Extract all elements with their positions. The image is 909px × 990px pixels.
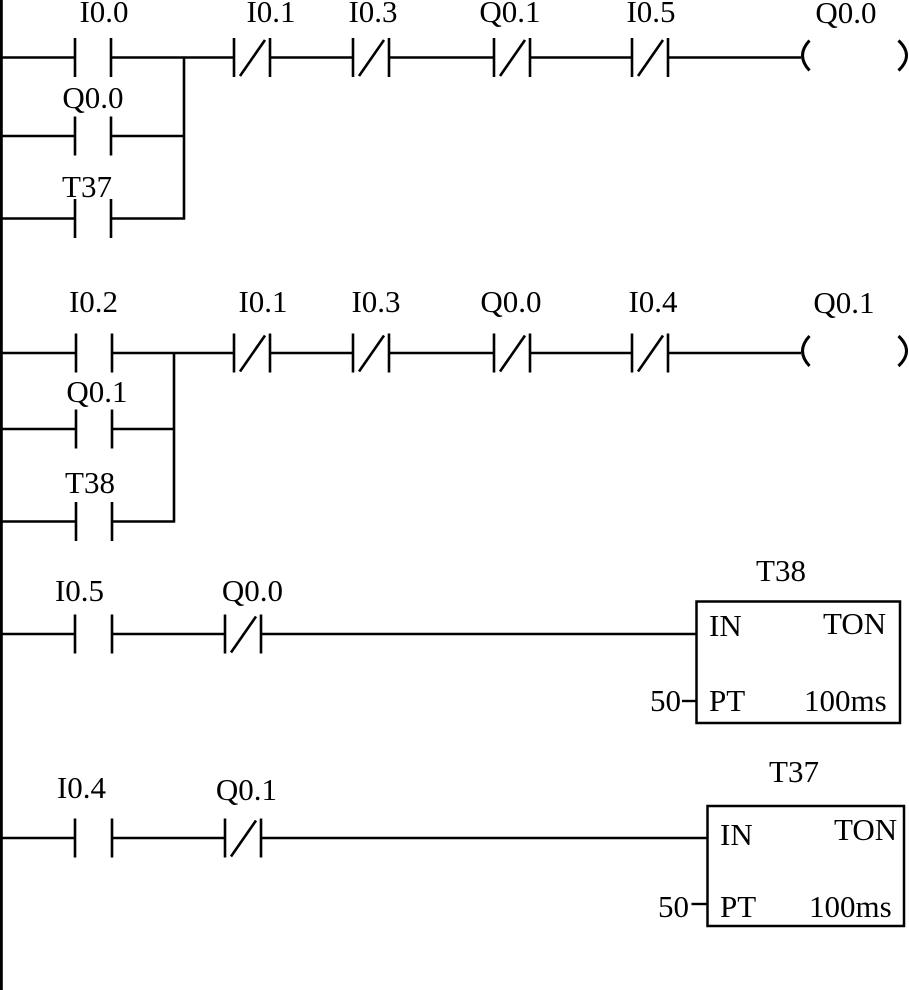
svg-text:I0.3: I0.3 <box>348 0 397 29</box>
svg-text:50: 50 <box>658 889 689 924</box>
contact I0.1 (NC rung2) <box>234 284 288 373</box>
svg-text:Q0.0: Q0.0 <box>480 284 541 319</box>
wire rung1 I0.5 to coil <box>668 56 801 58</box>
wire branch T38 to junction <box>112 520 175 522</box>
contact T38 (NO, parallel branch) <box>65 465 115 541</box>
wire rung4 rail to I0.4 <box>0 837 75 839</box>
node junction rung2 branch vertical <box>173 353 176 523</box>
wire rung4 I0.4 to Q0.1 <box>112 837 225 839</box>
wire rung4 Q0.1 to timer box <box>261 837 708 839</box>
svg-text:I0.5: I0.5 <box>55 573 104 608</box>
contact I0.4 (NC rung2) <box>628 284 678 373</box>
wire rung2 I0.1 to I0.3 <box>270 352 353 354</box>
svg-text:TON: TON <box>834 812 897 847</box>
svg-text:I0.3: I0.3 <box>351 284 400 319</box>
timer U T37 (TON box) <box>708 754 905 926</box>
svg-text:I0.5: I0.5 <box>626 0 675 29</box>
wire rung1 Q0.1 to I0.5 <box>530 56 632 58</box>
contact I0.2 (NO) <box>69 284 118 373</box>
contact Q0.1 (NC) <box>479 0 540 77</box>
pin PT value 50 (T37) <box>658 889 708 924</box>
wire rung1 I0.1 to I0.3 <box>270 56 353 58</box>
contact I0.3 (NC) <box>348 0 397 77</box>
pin PT value 50 (T38) <box>650 683 697 718</box>
svg-text:100ms: 100ms <box>809 889 892 924</box>
svg-text:Q0.0: Q0.0 <box>815 0 876 30</box>
contact Q0.0 (NC rung3) <box>222 573 283 654</box>
contact I0.5 (NC) <box>626 0 675 77</box>
wire rung2 I0.3 to Q0.0 <box>389 352 494 354</box>
wire branch Q0.1 to junction <box>112 428 175 430</box>
svg-text:Q0.0: Q0.0 <box>62 80 123 115</box>
contact I0.3 (NC rung2) <box>351 284 400 373</box>
contact T37 (NO, parallel branch) <box>62 169 112 238</box>
svg-text:I0.4: I0.4 <box>57 770 107 805</box>
wire branch Q0.0 to junction <box>111 135 185 137</box>
svg-text:I0.1: I0.1 <box>246 0 295 29</box>
wire branch Q0.0 rail to contact <box>0 135 75 137</box>
wire rung2 I0.2 to I0.1 <box>112 352 234 354</box>
contact Q0.1 (NO, parallel branch) <box>66 374 127 449</box>
wire branch Q0.1 rail to contact <box>0 428 76 430</box>
wire rung2 rail to I0.2 <box>0 352 76 354</box>
wire branch T38 rail to contact <box>0 520 76 522</box>
svg-text:Q0.0: Q0.0 <box>222 573 283 608</box>
svg-text:IN: IN <box>720 817 753 852</box>
svg-text:T37: T37 <box>769 754 819 789</box>
wire rung1 rail to I0.0 <box>0 56 75 58</box>
wire rung1 I0.3 to Q0.1 <box>389 56 494 58</box>
contact Q0.0 (NC rung2) <box>480 284 541 373</box>
svg-text:T38: T38 <box>65 465 115 500</box>
wire rung2 Q0.0 to I0.4 <box>530 352 632 354</box>
wire rung3 Q0.0 to timer box <box>261 633 697 635</box>
svg-text:Q0.1: Q0.1 <box>216 772 277 807</box>
wire branch T37 rail to contact <box>0 217 75 219</box>
contact I0.4 (NO rung4) <box>57 770 112 858</box>
svg-text:Q0.1: Q0.1 <box>66 374 127 409</box>
svg-text:Q0.1: Q0.1 <box>479 0 540 29</box>
svg-text:I0.0: I0.0 <box>79 0 128 29</box>
left power rail <box>0 0 3 990</box>
svg-text:I0.4: I0.4 <box>628 284 678 319</box>
svg-text:100ms: 100ms <box>804 683 887 718</box>
svg-text:Q0.1: Q0.1 <box>813 285 874 320</box>
timer U T38 (TON box) <box>697 553 901 723</box>
svg-text:I0.2: I0.2 <box>69 284 118 319</box>
contact Q0.0 (NO, parallel branch) <box>62 80 123 156</box>
coil Q0.1 <box>803 285 907 366</box>
wire rung3 rail to I0.5 <box>0 633 75 635</box>
svg-text:T37: T37 <box>62 169 112 204</box>
wire branch T37 to junction <box>111 217 185 219</box>
svg-text:PT: PT <box>709 683 745 718</box>
wire rung3 I0.5 to Q0.0 <box>112 633 225 635</box>
svg-text:50: 50 <box>650 683 681 718</box>
svg-text:I0.1: I0.1 <box>238 284 287 319</box>
wire rung2 I0.4 to coil <box>668 352 801 354</box>
svg-text:T38: T38 <box>756 553 806 588</box>
wire rung1 I0.0 to I0.1 <box>111 56 234 58</box>
node junction rung1 branch vertical <box>183 58 186 220</box>
contact I0.0 (NO) <box>75 0 129 77</box>
svg-text:IN: IN <box>709 608 742 643</box>
contact I0.5 (NO rung3) <box>55 573 112 654</box>
svg-text:PT: PT <box>720 889 756 924</box>
coil Q0.0 <box>803 0 907 71</box>
contact I0.1 (NC) <box>234 0 296 77</box>
contact Q0.1 (NC rung4) <box>216 772 277 858</box>
svg-text:TON: TON <box>823 606 886 641</box>
